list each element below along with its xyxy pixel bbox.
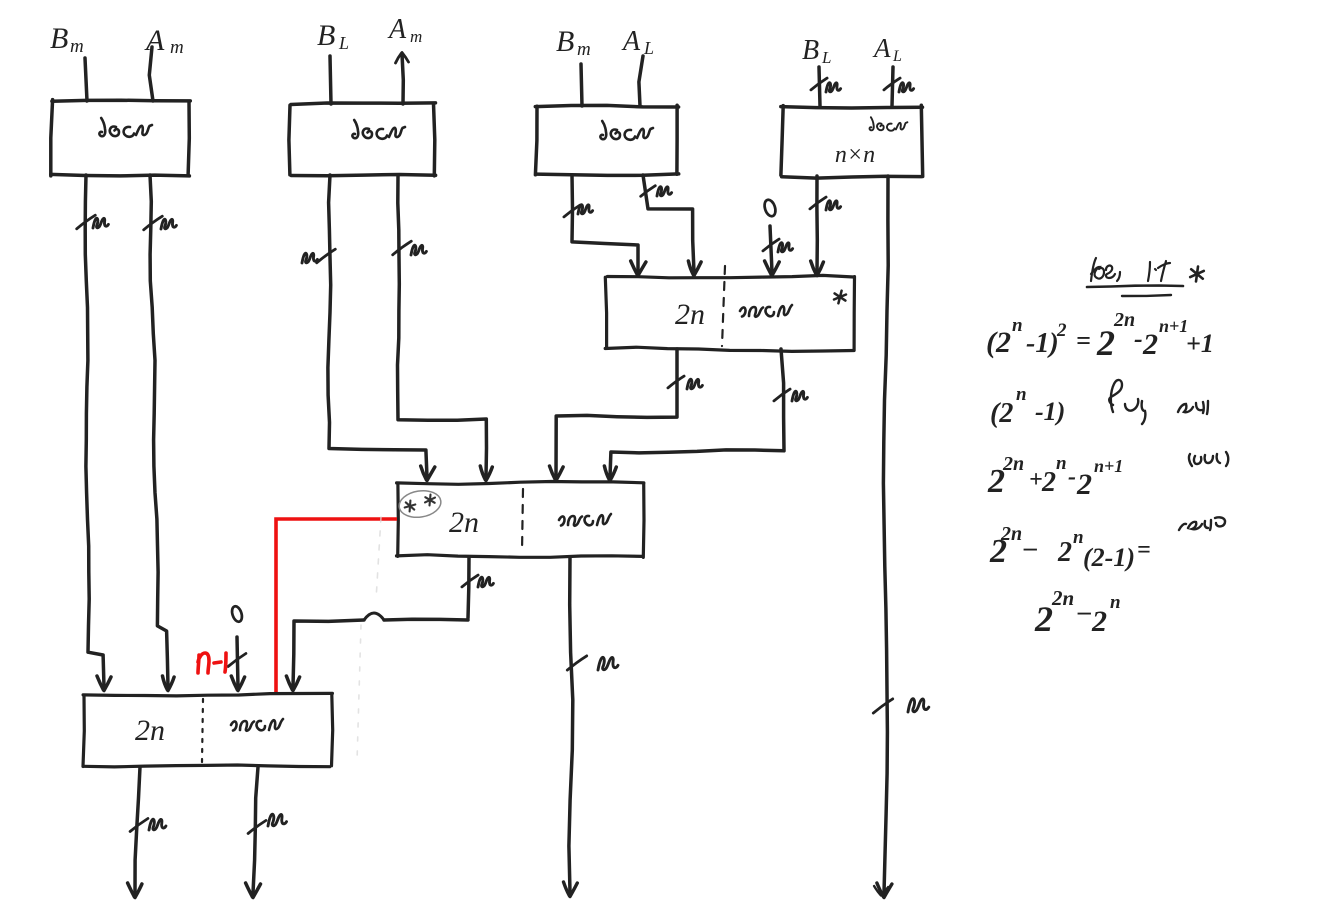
bus width slash n on U2 left out — [302, 249, 335, 263]
bus width slash n on S3 left out — [130, 819, 166, 832]
svg-text:2n: 2n — [1051, 586, 1074, 610]
wire Am to U2 with up arrow — [396, 53, 409, 105]
adder S2 label 2n — [449, 506, 479, 539]
multiplier U3 (Bm x AL) — [535, 105, 678, 175]
svg-text:+1: +1 — [1186, 329, 1214, 358]
wire 0 to adder S1 — [765, 226, 780, 276]
svg-text:2n: 2n — [1002, 453, 1024, 475]
svg-text:=: = — [1137, 537, 1151, 563]
wire BL to U2 — [330, 56, 331, 104]
adder S2 dashed divider — [522, 489, 523, 552]
svg-text:(2: (2 — [990, 398, 1013, 429]
multiplier U4 (BL x AL) nxn — [781, 105, 923, 178]
red feedback wire into S2 note — [276, 519, 397, 693]
faint crease mark — [357, 517, 381, 762]
wire U2 right output to adder S2 — [398, 176, 493, 481]
svg-text:n: n — [1016, 384, 1027, 405]
svg-text:n: n — [1110, 592, 1121, 613]
svg-text:2n: 2n — [1113, 309, 1135, 331]
multiplier U2 (BL x Am) — [289, 103, 436, 176]
adder S1 (top right) box — [605, 275, 854, 351]
wire AL to U4 — [892, 67, 893, 106]
adder S1 dashed divider — [722, 266, 725, 346]
svg-text:n×n: n×n — [835, 142, 875, 168]
svg-text:+: + — [1029, 467, 1043, 493]
svg-text:n+1: n+1 — [1094, 456, 1123, 476]
wire U4 right output long to bottom — [874, 176, 892, 898]
svg-text:m: m — [410, 27, 422, 46]
svg-text:2n: 2n — [449, 506, 479, 539]
svg-text:m: m — [70, 36, 84, 57]
node BL input label (U4) — [802, 35, 831, 67]
wire U3 right output to adder S1 — [643, 175, 701, 276]
svg-text:2: 2 — [1096, 323, 1115, 363]
wire U4 left output to adder S1 — [811, 176, 824, 276]
node BL input label (U2) — [317, 19, 349, 53]
note equation line 5 — [1034, 586, 1121, 639]
red label n-1 — [198, 653, 226, 673]
svg-text:B: B — [556, 25, 574, 58]
svg-text:2n: 2n — [675, 298, 705, 331]
note equation line 2 — [990, 384, 1065, 429]
wire Bm to U3 — [581, 64, 582, 106]
svg-text:L: L — [821, 48, 831, 67]
adder S1 label 2n — [675, 298, 705, 331]
note hebrew word 'nekabel' line 3 — [1189, 452, 1228, 466]
svg-text:2n: 2n — [1000, 523, 1022, 545]
svg-text:2: 2 — [1057, 537, 1072, 568]
wire S2 right output long to bottom — [564, 557, 578, 897]
svg-text:(2: (2 — [986, 326, 1011, 359]
bus width slash n on S2 left out — [462, 575, 494, 587]
wire S3 left output to bottom — [128, 767, 142, 898]
node Am input label (U2) — [387, 14, 422, 46]
wire U1 left output to adder S3 — [85, 175, 111, 691]
svg-text:n: n — [1056, 453, 1067, 474]
svg-text:n: n — [1073, 527, 1084, 548]
bus width slash n on S1 left out — [668, 376, 703, 389]
svg-text:-1): -1) — [1035, 397, 1065, 426]
wire BL to U4 — [819, 67, 820, 106]
wire U1 right output to adder S3 — [150, 175, 174, 691]
bus width slash n on U1 left out — [77, 215, 109, 229]
adder S3 label 2n — [135, 714, 165, 747]
svg-text:A: A — [387, 14, 407, 45]
wire U2 left output to adder S2 — [328, 175, 435, 481]
svg-text:m: m — [170, 37, 184, 58]
svg-text:A: A — [144, 24, 165, 57]
bus width slash n on U4 right out — [873, 699, 929, 713]
bus width slash n on U2 right out — [393, 241, 427, 255]
wire S1 right output to adder S2 — [604, 349, 784, 481]
adder S1 label mechaber — [740, 305, 792, 317]
note title hebrew 'shim lev' with asterisk — [1087, 258, 1204, 296]
svg-text:2: 2 — [1041, 467, 1056, 498]
adder S2 (middle) box — [397, 482, 645, 558]
svg-text:L: L — [892, 48, 902, 65]
svg-text:n+1: n+1 — [1159, 316, 1188, 336]
bus width slash n on BL wire — [811, 78, 841, 92]
svg-text:2: 2 — [1142, 328, 1158, 361]
adder S2 label mechaber — [559, 514, 611, 526]
bus width slash n on 0 wire (S1) — [763, 239, 793, 252]
bus width slash n on AL wire — [884, 78, 914, 92]
node Bm input label (U3) — [556, 25, 591, 60]
adder S3 label mechaber — [231, 719, 283, 731]
node Am input label (U1) — [144, 24, 184, 58]
svg-text:A: A — [872, 33, 891, 63]
bus width slash n on S3 right out — [248, 814, 286, 833]
bus width slash n on U3 left out — [564, 205, 593, 217]
svg-text:2: 2 — [1056, 320, 1067, 341]
svg-text:A: A — [621, 26, 641, 57]
svg-text:B: B — [50, 22, 68, 55]
node Bm input label (U1) — [50, 22, 84, 57]
node constant 0 input to S3 — [230, 605, 244, 623]
node AL input label (U4) — [872, 33, 902, 65]
svg-text:-: - — [1134, 324, 1143, 353]
bus width slash n on S1 right out — [774, 389, 808, 401]
wire U3 left output to adder S1 — [572, 175, 646, 276]
svg-text:B: B — [317, 19, 335, 52]
adder S2 circled double asterisk — [397, 488, 443, 520]
wire S2 left output to adder S3 with hop — [286, 557, 469, 691]
svg-text:=: = — [1076, 326, 1091, 355]
svg-text:-1): -1) — [1026, 328, 1059, 359]
svg-text:2: 2 — [1091, 605, 1107, 638]
adder S3 dotted divider — [202, 699, 203, 762]
bus width slash n on U1 right out — [144, 216, 177, 230]
svg-text:(2-1): (2-1) — [1083, 543, 1135, 572]
bus width slash n on S2 right out — [567, 656, 618, 670]
wire S1 left output to adder S2 — [550, 349, 678, 481]
svg-text:L: L — [643, 38, 654, 58]
adder S3 (bottom left) box — [83, 693, 333, 767]
note hebrew word 'klomar' line 4 — [1179, 517, 1225, 530]
svg-text:m: m — [577, 39, 591, 60]
adder S1 asterisk mark — [834, 291, 846, 304]
note equation line 1 — [986, 309, 1214, 363]
svg-text:L: L — [338, 33, 349, 53]
multiplier U1 (Bm x Am) — [51, 100, 191, 176]
wire S3 right output to bottom — [246, 767, 261, 898]
svg-text:B: B — [802, 35, 819, 66]
svg-text:2: 2 — [1034, 599, 1053, 639]
svg-text:2: 2 — [1076, 468, 1092, 501]
bus width slash n on U3 right out — [641, 186, 672, 197]
wire AL to U3 — [639, 56, 643, 106]
note hebrew word 'nosaf l' line 2 — [1109, 380, 1208, 424]
svg-text:–: – — [1077, 597, 1091, 626]
note equation line 3 — [987, 453, 1123, 501]
bus width slash n on U4 left out — [810, 197, 841, 210]
wire 0 to adder S3 — [231, 637, 244, 691]
svg-text:–: – — [1023, 533, 1037, 562]
svg-text:2n: 2n — [135, 714, 165, 747]
svg-text:n: n — [1012, 315, 1023, 336]
node AL input label (U3) — [621, 26, 654, 58]
wire Am to U1 — [149, 47, 153, 101]
bus width slash n-1 on 0 wire (S3) — [228, 654, 246, 667]
svg-text:-: - — [1068, 464, 1076, 490]
node constant 0 input to S1 — [763, 198, 778, 217]
note equation line 4 — [989, 523, 1151, 572]
wire Bm to U1 — [85, 58, 87, 101]
